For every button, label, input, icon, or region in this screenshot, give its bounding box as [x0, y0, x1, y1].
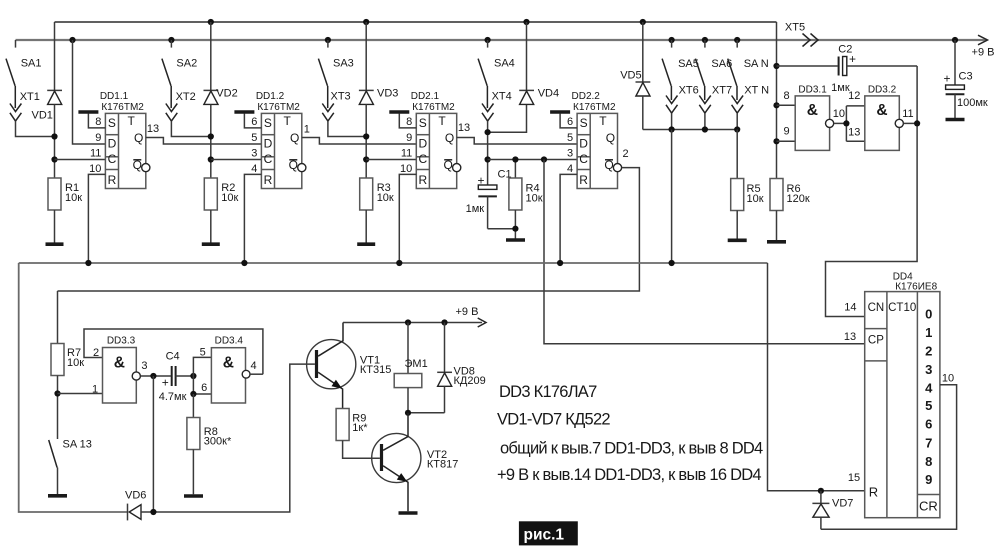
svg-text:Q: Q — [606, 131, 615, 145]
svg-text:&: & — [114, 355, 125, 372]
svg-text:10: 10 — [400, 163, 412, 175]
wire: DD3.4 out to feedback corner — [250, 373, 263, 375]
svg-text:XT N: XT N — [744, 85, 769, 97]
svg-text:&: & — [807, 102, 818, 119]
svg-text:1мк: 1мк — [466, 203, 485, 215]
ground under R5 — [728, 239, 747, 243]
connector XT7 — [699, 85, 732, 130]
ground under R3 — [357, 242, 375, 246]
flip-flop DD1.1 К176ТМ2 box — [105, 113, 145, 188]
svg-text:S: S — [264, 116, 272, 130]
svg-text:+: + — [943, 72, 950, 86]
wire: XT3 to VD3 anode — [328, 121, 366, 136]
node: XT4/VD4 junction — [485, 129, 491, 135]
connector XT1 (double chevron) — [10, 86, 40, 121]
switch SA 13 — [49, 439, 92, 495]
diode VD6 (on base line, pointing left) — [125, 490, 146, 521]
svg-text:ЭМ1: ЭМ1 — [405, 358, 428, 370]
svg-text:8: 8 — [406, 116, 412, 128]
wire: DD3.3 out to C4 — [140, 375, 171, 377]
connector XT N — [732, 85, 770, 130]
label DD4 designator — [893, 272, 938, 293]
svg-text:D: D — [418, 136, 427, 150]
ground under R2 — [202, 242, 220, 246]
svg-text:9: 9 — [406, 132, 412, 144]
label DD1.2 designator — [256, 91, 300, 113]
node: C4 right junction — [190, 373, 196, 379]
svg-text:общий к выв.7 DD1-DD3, к выв 8: общий к выв.7 DD1-DD3, к выв 8 DD4 — [500, 440, 763, 458]
svg-text:SA N: SA N — [744, 58, 769, 70]
svg-text:XT4: XT4 — [492, 91, 512, 103]
wire: feedback DD3.4 out to DD3.3 pin 2 — [84, 329, 263, 374]
switch SA N — [728, 40, 769, 86]
svg-text:10к: 10к — [747, 193, 764, 205]
svg-text:рис.1: рис.1 — [524, 527, 565, 544]
wire: reset bus (R pins common) — [19, 262, 768, 264]
label +9 В (rail B end arrow) — [972, 35, 995, 58]
ground under SA 13 — [48, 494, 67, 498]
svg-text:6: 6 — [925, 417, 932, 432]
switch SA2 — [162, 40, 197, 86]
svg-text:8: 8 — [783, 90, 789, 102]
node: DD3.1 out junction — [843, 120, 849, 126]
svg-text:VD1-VD7 КД522: VD1-VD7 КД522 — [497, 411, 610, 429]
svg-text:DD2.2: DD2.2 — [572, 91, 601, 102]
svg-text:1к*: 1к* — [352, 422, 368, 434]
svg-text:1: 1 — [304, 123, 310, 135]
wire: C input of DD1.1 (pin 11) — [55, 159, 106, 161]
switch SA6 — [695, 40, 732, 86]
switch SA1 — [6, 40, 41, 86]
node: DD3.1 pin 8 tap — [773, 102, 779, 108]
node: DD3.3 out junction — [150, 373, 156, 379]
wire: XT4 branch to VD4 — [488, 104, 527, 132]
svg-text:9: 9 — [925, 472, 932, 487]
wire: DD3.3 out down to VD6 line — [152, 376, 154, 512]
node: VD3/C-line junction — [363, 156, 369, 162]
op-gate DD3.3 (NAND) — [103, 336, 137, 404]
wire: R pin 10 of DD2.1 down to reset bus — [399, 174, 416, 263]
svg-text:5: 5 — [567, 132, 573, 144]
svg-text:КТ817: КТ817 — [427, 459, 458, 471]
svg-text:6: 6 — [201, 382, 207, 394]
op-gate DD3.2 (NAND) — [865, 85, 900, 151]
diode VD4 — [519, 22, 559, 104]
svg-text:SA2: SA2 — [176, 58, 197, 70]
node: VD1/XT1 junction — [51, 133, 57, 139]
flip-flop DD2.2 К176ТМ2 box — [577, 113, 617, 188]
pin labels DD3.1 — [783, 90, 845, 138]
node: XT6 bottom junction — [669, 126, 675, 132]
svg-text:C: C — [108, 152, 117, 166]
svg-text:11: 11 — [90, 148, 101, 160]
diode VD5 — [620, 22, 650, 130]
svg-text:11: 11 — [902, 108, 913, 120]
svg-text:CR: CR — [919, 499, 938, 514]
svg-text:VD4: VD4 — [538, 88, 559, 100]
output circle Q-bar DD2.1 (unused) — [453, 164, 461, 172]
svg-text:10: 10 — [833, 108, 845, 120]
figure label рис.1 — [519, 521, 578, 545]
svg-text:13: 13 — [844, 331, 856, 343]
wire: Q output pin 1 of DD1.2 to D of DD2.1 — [302, 123, 417, 144]
node: VD2/XT2 junction — [208, 133, 214, 139]
counter DD4 output digits 0-9 — [925, 307, 933, 488]
svg-text:3: 3 — [567, 148, 573, 160]
svg-text:К176ТМ2: К176ТМ2 — [101, 102, 144, 113]
capacitor C3 (electrolytic) — [943, 40, 987, 118]
resistor R7 — [51, 291, 84, 439]
pin labels DD3.2 — [848, 90, 913, 138]
resistor R4 — [509, 160, 543, 240]
svg-text:XT7: XT7 — [712, 85, 732, 97]
resistor R8 — [187, 394, 232, 494]
node: VD8 +9V tap — [441, 319, 447, 325]
svg-text:XT3: XT3 — [331, 91, 351, 103]
svg-text:DD3.1: DD3.1 — [798, 85, 827, 96]
svg-text:10к: 10к — [67, 357, 84, 369]
svg-text:VD5: VD5 — [620, 70, 641, 82]
svg-text:5: 5 — [925, 398, 932, 413]
diode VD1 — [32, 22, 63, 178]
svg-text:6: 6 — [567, 116, 573, 128]
svg-text:2: 2 — [93, 347, 99, 359]
svg-text:R: R — [264, 173, 273, 187]
svg-text:C4: C4 — [166, 350, 180, 362]
svg-text:6: 6 — [251, 116, 257, 128]
wire: R pin 4 of DD1.2 down to reset bus — [244, 174, 261, 263]
node: VD3/XT3 junction — [363, 133, 369, 139]
svg-text:DD3.4: DD3.4 — [215, 336, 244, 347]
svg-text:SA4: SA4 — [494, 58, 515, 70]
svg-text:300к*: 300к* — [204, 436, 232, 448]
ground under R4 — [506, 238, 525, 242]
svg-text:DD3 К176ЛА7: DD3 К176ЛА7 — [499, 383, 597, 401]
ground under C3 — [946, 118, 965, 122]
pin numbers DD1.1 (8,9,11,10) — [89, 116, 101, 175]
transistor VT2 КТ817 — [372, 413, 459, 512]
svg-text:T: T — [599, 114, 607, 128]
svg-text:10к: 10к — [377, 192, 394, 204]
wire: +9V rail A (top, VD cathodes to DD3.1 inputs) — [55, 21, 777, 23]
op-gate DD3.4 (NAND) — [211, 336, 245, 404]
wire: SA group node down to reset bus — [671, 130, 673, 264]
connector XT3 — [322, 86, 350, 121]
svg-text:3: 3 — [141, 360, 147, 372]
svg-text:+: + — [162, 376, 169, 390]
svg-text:R: R — [108, 173, 117, 187]
wire: rail A end down to DD3.1 inputs and R6 — [776, 22, 778, 179]
wire: SA5-SAN common bottom wire — [643, 129, 737, 131]
resistor R1 — [48, 178, 82, 243]
wire: R pin 4 of DD2.2 down to reset bus — [560, 174, 577, 263]
wire: Q output pin 13 of DD2.1 to D of DD2.2 — [457, 122, 577, 144]
svg-text:10: 10 — [89, 163, 101, 175]
node: R4 top on C-line — [512, 156, 518, 162]
label DD1.1 designator — [100, 91, 144, 113]
node: DD3.2 out junction — [914, 120, 920, 126]
node: R4/C1 junction — [512, 226, 518, 232]
wire: XT1 to VD1 anode — [16, 121, 55, 136]
svg-text:&: & — [223, 355, 234, 372]
svg-text:XT5: XT5 — [785, 22, 805, 34]
svg-text:13: 13 — [848, 126, 860, 138]
svg-text:+: + — [477, 174, 484, 188]
node: VD1/C-line junction — [51, 156, 57, 162]
svg-text:13: 13 — [147, 123, 159, 135]
svg-text:&: & — [876, 102, 887, 119]
svg-text:0: 0 — [925, 307, 932, 322]
wire: XT4 down to C1/C-line — [487, 121, 489, 185]
resistor R6 — [770, 179, 810, 241]
svg-text:4: 4 — [567, 163, 573, 175]
wire: DD3.2 out to C2 and to DD4 CN pin 14 — [826, 66, 918, 317]
svg-text:10к: 10к — [221, 192, 238, 204]
svg-text:T: T — [128, 114, 136, 128]
svg-text:XT1: XT1 — [20, 91, 40, 103]
svg-text:C: C — [579, 152, 588, 166]
pin labels DD3.4 — [200, 347, 257, 395]
svg-text:10к: 10к — [65, 192, 82, 204]
node: rail B junction dots — [69, 37, 958, 43]
svg-text:R: R — [579, 173, 588, 187]
svg-text:CT10: CT10 — [888, 302, 916, 314]
common bar symbol at S input of DD1.1 — [78, 112, 105, 128]
relay ЭМ1 — [394, 323, 427, 413]
svg-text:DD1.1: DD1.1 — [100, 91, 129, 102]
wire: pin 2 of DD2.2 right and down to oscillator (R7) — [58, 148, 640, 291]
svg-text:C2: C2 — [838, 44, 852, 56]
wire: to DD3.3 pin 1 — [58, 393, 103, 395]
switch SA5 — [662, 40, 699, 86]
svg-text:10: 10 — [942, 373, 954, 385]
output circle Q-bar DD2.2 pin 2 — [613, 164, 621, 172]
capacitor C2 (electrolytic) — [777, 44, 918, 95]
connector XT2 — [166, 86, 196, 121]
pin numbers DD1.2 (6,5,3,4) — [251, 116, 257, 175]
common bar symbol at S input of DD2.2 — [550, 112, 577, 128]
output circle DD3.3 pin 3 — [132, 372, 140, 380]
svg-text:КД209: КД209 — [454, 375, 486, 387]
svg-text:C: C — [264, 152, 273, 166]
svg-text:SA1: SA1 — [21, 58, 42, 70]
svg-text:13: 13 — [458, 122, 470, 134]
wire: rail B (+9 V supply top bus) — [16, 39, 988, 41]
svg-text:К176ТМ2: К176ТМ2 — [412, 102, 455, 113]
node: VD7 junction on R line — [818, 488, 824, 494]
resistor R9 — [336, 409, 380, 459]
svg-text:К176ТМ2: К176ТМ2 — [573, 102, 616, 113]
common bar symbol at S input of DD2.1 — [389, 112, 416, 128]
svg-text:10к: 10к — [526, 192, 543, 204]
svg-text:К176ИЕ8: К176ИЕ8 — [895, 282, 937, 293]
node: bus junctions — [85, 260, 674, 266]
wire: bus left end down to VD6 line — [19, 263, 127, 512]
svg-text:T: T — [284, 114, 292, 128]
flip-flop DD2.1 К176ТМ2 box — [416, 113, 456, 188]
svg-text:XT2: XT2 — [176, 91, 196, 103]
node: VT2 collector junction — [405, 410, 411, 416]
svg-text:+9 В к выв.14 DD1-DD3, к выв 1: +9 В к выв.14 DD1-DD3, к выв 16 DD4 — [497, 466, 761, 484]
ground under VT2 — [399, 511, 418, 515]
svg-text:DD1.2: DD1.2 — [256, 91, 285, 102]
wire: C-line of DD2.2 down/right to CP pin 13 of DD4 — [544, 160, 865, 344]
svg-text:SA3: SA3 — [333, 58, 354, 70]
svg-text:Q: Q — [445, 131, 454, 145]
capacitor C1 (electrolytic) — [466, 169, 516, 229]
label DD2.2 designator — [572, 91, 616, 113]
svg-text:D: D — [264, 136, 273, 150]
ground under R8 — [184, 494, 203, 498]
svg-text:CP: CP — [868, 335, 884, 347]
ground under R1 — [46, 242, 64, 246]
svg-text:D: D — [579, 136, 588, 150]
svg-text:11: 11 — [401, 148, 412, 160]
output circle Q-bar DD1.1 (unused) — [142, 164, 150, 172]
wire: C input of DD2.1 (pin 11) — [366, 159, 416, 161]
svg-text:DD3.2: DD3.2 — [868, 85, 897, 96]
svg-text:4: 4 — [925, 381, 933, 396]
output circle Q-bar DD1.2 (unused) — [298, 164, 306, 172]
svg-text:+9 В: +9 В — [456, 306, 479, 318]
node: VD6/DD3.3 junction — [150, 509, 156, 515]
svg-text:1мк: 1мк — [831, 82, 850, 94]
svg-text:S: S — [108, 116, 116, 130]
node: R7 bottom / pin 1 junction — [54, 390, 60, 396]
svg-text:Q: Q — [290, 131, 299, 145]
svg-text:VD1: VD1 — [32, 110, 53, 122]
svg-text:КТ315: КТ315 — [360, 364, 391, 376]
wire: bus right end down to DD4 R pin 15 — [768, 263, 865, 491]
transistor VT1 КТ315 — [307, 323, 392, 409]
resistor R2 — [204, 178, 238, 243]
diode VD8 КД209 — [408, 323, 486, 413]
svg-text:C: C — [418, 152, 427, 166]
wire: DD3.1 out to DD3.2 inputs 12/13 — [834, 106, 865, 141]
svg-text:8: 8 — [95, 116, 101, 128]
switch SA4 — [478, 40, 515, 86]
svg-text:15: 15 — [848, 472, 860, 484]
svg-text:8: 8 — [925, 454, 932, 469]
svg-text:C3: C3 — [959, 71, 973, 83]
svg-text:120к: 120к — [787, 193, 810, 205]
node: relay +9V tap — [405, 319, 411, 325]
resistor R3 — [360, 178, 394, 243]
output circle DD3.2 pin 11 — [895, 119, 903, 127]
output circle DD3.1 pin 10 — [826, 119, 834, 127]
node: XTN bottom junction — [734, 126, 740, 132]
wire: DD4 output 4 (pin 10) to VD7 anode — [821, 385, 957, 530]
svg-text:S: S — [580, 116, 588, 130]
op-gate DD3.1 (NAND) — [795, 85, 829, 151]
diode VD3 — [359, 22, 399, 178]
svg-text:S: S — [419, 116, 427, 130]
switch SA3 — [318, 40, 353, 86]
connector XT5 (chevrons on rail B) — [785, 22, 818, 47]
svg-text:12: 12 — [848, 90, 860, 102]
svg-text:9: 9 — [783, 126, 789, 138]
svg-text:R: R — [869, 485, 878, 500]
connector XT4 — [482, 86, 512, 121]
diode VD7 — [812, 491, 853, 530]
wire: +9V line of relay stage — [343, 306, 486, 327]
svg-text:100мк: 100мк — [957, 97, 988, 109]
ground under R6 — [767, 240, 786, 244]
wire: C line to pin 3 of DD2.2 — [488, 159, 577, 161]
resistor R5 — [731, 130, 764, 240]
svg-text:4: 4 — [251, 360, 257, 372]
wire: Q output pin 13 of DD1.1 to D of DD1.2 — [146, 123, 262, 144]
svg-text:+9 В: +9 В — [972, 46, 995, 58]
svg-text:4.7мк: 4.7мк — [159, 391, 187, 403]
node: rail A junction dots — [208, 19, 646, 25]
pin labels DD3.3 — [92, 347, 148, 396]
node: C2 tap — [773, 63, 779, 69]
wire: XT2 to VD2 anode — [171, 121, 210, 136]
svg-text:5: 5 — [200, 347, 206, 359]
svg-text:SA 13: SA 13 — [63, 439, 92, 451]
svg-text:1: 1 — [92, 383, 98, 395]
label DD2.1 designator — [411, 91, 455, 113]
wire: VD6 line to VT1 base — [141, 364, 315, 512]
svg-text:2: 2 — [622, 148, 628, 160]
connector XT6 — [666, 85, 699, 130]
svg-text:1: 1 — [925, 325, 932, 340]
svg-text:14: 14 — [844, 301, 856, 313]
svg-text:VD6: VD6 — [125, 490, 146, 502]
svg-text:DD2.1: DD2.1 — [411, 91, 440, 102]
node: C-line to DD4 CP branch — [541, 156, 547, 162]
counter DD4 К176ИЕ8 box — [865, 292, 940, 518]
node: VD2/C-line junction — [208, 156, 214, 162]
output circle DD3.4 pin 4 — [242, 370, 250, 378]
node: DD3.1 pin 9 tap — [773, 138, 779, 144]
node: XT4/C-line junction — [485, 156, 491, 162]
svg-text:CN: CN — [868, 302, 885, 314]
svg-text:4: 4 — [251, 163, 257, 175]
svg-text:5: 5 — [251, 132, 257, 144]
svg-text:VD7: VD7 — [832, 498, 853, 510]
wire: C input of DD1.2 (pin 3) — [211, 159, 262, 161]
pin numbers DD2.1 (8,9,11,10) — [400, 116, 412, 175]
node: XT7 bottom junction — [702, 126, 708, 132]
svg-text:R: R — [418, 173, 427, 187]
wire: R pin 10 of DD1.1 down to reset bus — [88, 174, 105, 263]
svg-text:VD2: VD2 — [216, 88, 237, 100]
svg-text:Q: Q — [134, 131, 143, 145]
svg-text:D: D — [108, 136, 117, 150]
pin numbers DD2.2 (6,5,3,4) — [567, 116, 573, 175]
svg-text:XT6: XT6 — [679, 85, 699, 97]
wire: DD3.1 input pins 8 and 9 — [777, 105, 796, 141]
svg-text:9: 9 — [95, 132, 101, 144]
capacitor C4 — [159, 350, 194, 403]
common bar symbol at S input of DD1.2 — [234, 112, 261, 128]
svg-text:3: 3 — [251, 148, 257, 160]
svg-text:VD3: VD3 — [377, 88, 398, 100]
svg-text:7: 7 — [925, 436, 932, 451]
svg-text:DD3.3: DD3.3 — [107, 336, 136, 347]
wire: to DD3.4 pins 5 and 6 — [193, 357, 211, 394]
svg-text:К176ТМ2: К176ТМ2 — [257, 102, 300, 113]
node: pin 6 / R8 junction — [190, 391, 196, 397]
diode VD2 — [204, 22, 238, 178]
flip-flop DD1.2 К176ТМ2 box — [261, 113, 301, 188]
wire: rail B to D input of DD1.1 (pin 9) — [73, 40, 106, 144]
svg-text:2: 2 — [925, 344, 932, 359]
svg-text:T: T — [438, 114, 446, 128]
svg-text:3: 3 — [925, 362, 932, 377]
